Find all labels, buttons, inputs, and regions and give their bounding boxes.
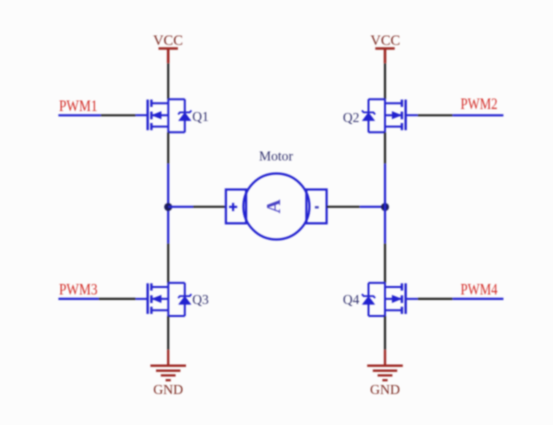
wire PWM4 to Q4 gate [418,298,504,300]
svg-text:A: A [264,199,285,213]
motor pad - (right) [306,190,326,224]
svg-text:Q1: Q1 [192,109,209,124]
node left junction [164,203,172,211]
wire Q2 source down [384,132,386,164]
svg-text:PWM4: PWM4 [461,281,498,298]
ground symbol (left) [150,350,186,380]
svg-text:Q3: Q3 [192,292,209,307]
svg-text:GND: GND [370,383,400,398]
ground symbol (right) [367,350,403,380]
svg-text:VCC: VCC [153,33,183,49]
motor circle [243,174,309,240]
svg-text:VCC: VCC [370,33,400,49]
wire right leg (blue) [384,164,386,244]
wire Q4 source to GND [384,316,386,350]
label - [315,206,319,208]
transistor Q3 [136,283,192,316]
svg-text:PWM1: PWM1 [59,98,98,115]
wire Q3 drain up [167,243,169,283]
svg-text:Q4: Q4 [343,292,360,307]
wire Q4 drain up [384,243,386,283]
transistor Q1 [136,99,192,132]
node right junction [381,203,389,211]
wire Q3 source to GND [167,316,169,350]
label + [229,203,237,211]
wire PWM3 to Q3 gate [58,298,135,300]
wire PWM1 to Q1 gate [58,114,135,116]
wire junction to motor + [168,206,226,208]
wire left leg (blue) [167,164,169,244]
svg-text:GND: GND [153,383,183,398]
wire VCC to Q1 drain [167,63,169,99]
transistor Q2 (mirrored) [362,99,418,132]
wire PWM2 to Q2 gate [418,114,504,116]
transistor Q4 (mirrored) [362,283,418,316]
svg-text:PWM2: PWM2 [461,96,498,113]
wire Q1 source down [167,132,169,164]
wire motor - to junction [327,206,385,208]
wire VCC to Q2 drain [384,63,386,99]
motor pad + (left) [226,190,246,224]
power symbol VCC (right) [375,49,394,64]
power symbol VCC (left) [159,49,178,64]
svg-text:Motor: Motor [259,149,294,164]
svg-text:PWM3: PWM3 [59,281,98,298]
svg-text:Q2: Q2 [343,110,360,125]
